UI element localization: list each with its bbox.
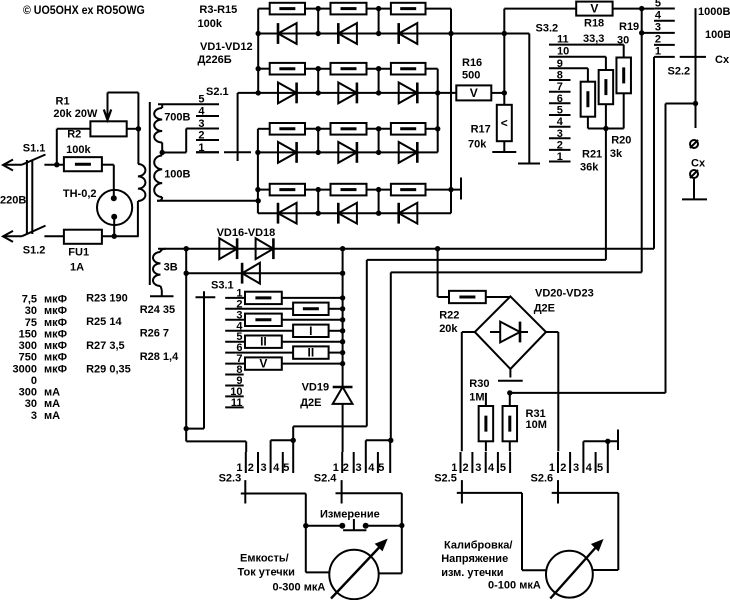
svg-text:300: 300: [19, 340, 37, 352]
transformer primary winding: [138, 129, 146, 236]
transformer secondary 700V winding: [154, 104, 190, 152]
svg-text:2: 2: [248, 462, 254, 474]
fuse FU1 1A: [44, 230, 138, 274]
svg-text:мкФ: мкФ: [44, 305, 67, 317]
switch S2.6 contacts: [531, 452, 608, 485]
svg-text:Д2Е: Д2Е: [300, 397, 321, 409]
svg-text:Д226Б: Д226Б: [198, 54, 232, 66]
svg-text:8: 8: [557, 70, 563, 82]
svg-text:10M: 10M: [526, 419, 547, 431]
svg-text:4: 4: [198, 106, 205, 118]
svg-text:VD16-VD18: VD16-VD18: [217, 227, 276, 239]
wire S2.6 contacts 3,5 join and bar: [583, 430, 618, 453]
svg-text:R26 7: R26 7: [140, 328, 169, 340]
label 1000V: [698, 6, 730, 18]
svg-text:5: 5: [557, 105, 563, 117]
svg-text:30: 30: [25, 305, 37, 317]
wire S2.4 common to meter: [336, 493, 405, 573]
resistor R2 100k: [64, 129, 114, 199]
resistor R21 36k: [580, 68, 602, 173]
svg-text:© UO5OHX ex RO5OWG: © UO5OHX ex RO5OWG: [23, 3, 145, 17]
svg-text:II: II: [308, 346, 315, 360]
wire VD19 to S2.4 contact1: [342, 404, 344, 452]
svg-text:мкФ: мкФ: [44, 294, 67, 306]
wire left riser x186: [184, 249, 189, 432]
wire S2.2 common down to R30/R31: [510, 104, 666, 393]
resistor R16 with V meter symbol: [456, 57, 504, 100]
wire S2.6 common to meter2: [552, 493, 619, 570]
svg-text:100k: 100k: [198, 18, 223, 30]
svg-text:3: 3: [356, 462, 362, 474]
svg-text:36k: 36k: [580, 161, 599, 173]
wire ladder output riser x504: [502, 9, 577, 105]
label capacitance scale values: [13, 294, 68, 422]
node 700V/100V tap: [160, 129, 197, 156]
wire S2.5 common to meter2: [457, 493, 546, 570]
label VD16-VD18: [217, 227, 276, 239]
svg-text:20k: 20k: [439, 323, 458, 335]
svg-text:мА: мА: [44, 398, 60, 410]
svg-text:V: V: [470, 86, 478, 100]
svg-text:VD20-VD23: VD20-VD23: [535, 287, 594, 299]
transformer core: [149, 102, 151, 285]
svg-text:Калибровка/: Калибровка/: [444, 540, 512, 552]
terminal Cx upper: [690, 140, 698, 148]
switch S3.2 contacts: [536, 22, 624, 163]
svg-text:R28 1,4: R28 1,4: [140, 351, 179, 363]
resistor R23 scale element: [225, 292, 345, 304]
switch S1.2: [3, 226, 46, 257]
svg-text:1A: 1A: [70, 262, 84, 274]
svg-text:750: 750: [19, 352, 37, 364]
wire stubs row R3-R5 row1: [316, 6, 382, 36]
resistor R24 scale element: [225, 303, 345, 315]
switch S1.1: [3, 143, 46, 171]
svg-text:300: 300: [19, 387, 37, 399]
resistor R31 10M: [503, 390, 547, 451]
svg-text:2: 2: [655, 34, 661, 46]
switch S1 mechanical link: [27, 160, 32, 234]
svg-text:VD1-VD12: VD1-VD12: [200, 41, 253, 53]
svg-text:75: 75: [25, 317, 37, 329]
svg-text:5: 5: [655, 0, 661, 9]
svg-text:3000: 3000: [13, 363, 37, 375]
svg-text:Измерение: Измерение: [320, 508, 380, 520]
svg-text:изм. утечки: изм. утечки: [441, 567, 503, 579]
wire bridge right to S2.6 contact1: [546, 332, 558, 451]
svg-text:мкФ: мкФ: [44, 352, 67, 364]
wire VD16 line: [158, 246, 654, 251]
wire S2.4 contacts 3,5 join: [366, 438, 394, 452]
diodes VD1-VD3 row1: [258, 23, 504, 44]
svg-text:R27 3,5: R27 3,5: [86, 340, 125, 352]
wire R21 node down-left: [367, 129, 606, 427]
label R23-R29 values: [86, 293, 179, 376]
resistor R19 30: [616, 21, 639, 93]
svg-text:2: 2: [343, 462, 349, 474]
switch S2.6 wiper: [557, 480, 559, 503]
svg-text:100В: 100В: [705, 29, 730, 41]
svg-text:7,5: 7,5: [22, 294, 37, 306]
wire VD18 line: [184, 271, 346, 276]
svg-text:0-300 мкА: 0-300 мкА: [273, 582, 326, 594]
svg-text:2: 2: [560, 462, 566, 474]
meter PA1 0-300uA: [329, 540, 387, 600]
svg-text:30: 30: [617, 35, 629, 47]
svg-text:Ток утечки: Ток утечки: [238, 567, 295, 579]
resistor R18 33,3 with V meter symbol: [576, 2, 655, 45]
svg-text:R21: R21: [582, 149, 602, 161]
switch S2.3 wiper: [244, 480, 246, 503]
title copyright label: [23, 3, 145, 17]
switch S2.4 contacts: [314, 452, 390, 485]
svg-text:R23 190: R23 190: [86, 293, 128, 305]
svg-text:7: 7: [557, 81, 563, 93]
svg-text:R22: R22: [439, 309, 459, 321]
svg-text:S3.2: S3.2: [536, 22, 559, 34]
switch S3.1 contacts: [225, 287, 244, 409]
svg-text:1: 1: [557, 151, 563, 163]
wire stubs row R12-R15 row4: [316, 187, 382, 216]
svg-text:R25 14: R25 14: [86, 316, 122, 328]
terminal bar bridge bottom: [498, 369, 523, 381]
switch S2.5 contacts: [434, 452, 510, 485]
svg-text:S1.2: S1.2: [23, 244, 46, 256]
terminal bar row4 right: [460, 178, 462, 200]
switch S2.2 contacts: [642, 0, 690, 77]
svg-text:S3.1: S3.1: [211, 280, 234, 292]
label meter2: [441, 540, 541, 592]
svg-text:3: 3: [573, 462, 579, 474]
diodes VD4-VD6 row2: [258, 83, 456, 104]
svg-text:1000В: 1000В: [698, 6, 730, 18]
switch S2.1 wiper: [224, 93, 258, 161]
svg-text:<: <: [501, 116, 508, 130]
svg-text:ТН-0,2: ТН-0,2: [63, 188, 97, 200]
diodes VD7-VD9 row3: [258, 142, 438, 163]
svg-text:1M: 1M: [469, 392, 484, 404]
svg-text:R19: R19: [619, 21, 639, 33]
wire R18 output to S2.2 contact3 and down: [639, 6, 644, 273]
svg-text:5: 5: [378, 462, 384, 474]
svg-text:2: 2: [557, 139, 563, 151]
label Cx range: [715, 54, 730, 66]
svg-text:мкФ: мкФ: [44, 363, 67, 375]
svg-text:2: 2: [463, 462, 469, 474]
svg-text:100В: 100В: [164, 169, 190, 181]
svg-text:V: V: [590, 2, 598, 16]
label Cx terminal: [691, 158, 706, 170]
diode VD18: [242, 263, 260, 284]
svg-text:6: 6: [557, 93, 563, 105]
terminal bar R17 bottom: [492, 151, 516, 153]
wire R18 node left branch: [391, 272, 642, 440]
svg-text:S2.5: S2.5: [434, 473, 457, 485]
svg-text:2: 2: [198, 130, 204, 142]
svg-text:R3-R15: R3-R15: [199, 4, 237, 16]
svg-text:0: 0: [31, 375, 37, 387]
svg-text:3: 3: [475, 462, 481, 474]
svg-text:150: 150: [19, 328, 37, 340]
svg-text:5: 5: [500, 462, 506, 474]
svg-text:R17: R17: [471, 124, 491, 136]
svg-text:3: 3: [261, 462, 267, 474]
switch S2.3 contacts: [219, 452, 294, 485]
svg-text:100k: 100k: [66, 144, 91, 156]
resistor R22 20k: [439, 291, 486, 335]
resistor R26 scale element: [225, 324, 345, 338]
svg-text:R30: R30: [469, 378, 489, 390]
svg-text:R18: R18: [584, 18, 604, 30]
wire VD16 line to R22: [438, 249, 449, 297]
terminal bar Cx bottom: [682, 198, 707, 200]
svg-text:Емкость/: Емкость/: [240, 553, 289, 565]
terminal Cx lower: [690, 170, 698, 199]
svg-text:S2.3: S2.3: [219, 473, 242, 485]
switch S2.1 contacts: [158, 86, 229, 154]
wire 100V winding to ladder bus: [157, 198, 261, 203]
switch S2.5 wiper: [461, 480, 463, 503]
bridge rectifier VD20-VD23: [475, 287, 594, 369]
wire bridge left to S2.5 contact1: [462, 332, 475, 451]
resistors R9-R11 row3: [258, 123, 438, 135]
svg-text:20k 20W: 20k 20W: [53, 108, 98, 120]
wire ladder left bus upper: [256, 9, 261, 96]
svg-text:0-100 мкА: 0-100 мкА: [488, 580, 541, 592]
svg-text:Сх: Сх: [691, 158, 706, 170]
svg-text:Сх: Сх: [715, 54, 730, 66]
diode VD17: [256, 238, 274, 259]
svg-text:4: 4: [655, 10, 662, 22]
svg-text:мкФ: мкФ: [44, 317, 67, 329]
wire S2.2 contact1 down to VD16 line: [653, 57, 655, 249]
svg-text:4: 4: [557, 116, 564, 128]
svg-text:R24 35: R24 35: [140, 304, 175, 316]
svg-text:5: 5: [283, 462, 289, 474]
switch S2.4 wiper: [341, 480, 343, 503]
svg-text:мА: мА: [44, 410, 60, 422]
svg-text:мкФ: мкФ: [44, 340, 67, 352]
svg-text:мкФ: мкФ: [44, 328, 67, 340]
resistors R6-R8 row2: [258, 63, 438, 75]
resistors R3-R5 row1: [258, 3, 451, 15]
wire stubs row R9-R11 row3: [316, 126, 382, 155]
wire stubs row R6-R8 row2: [316, 66, 382, 96]
svg-text:S2.4: S2.4: [314, 473, 338, 485]
wire riser x186 to S2.3 contact1: [186, 429, 246, 452]
label R3-R15 100k: [198, 4, 238, 30]
transformer secondary 100V winding: [154, 156, 190, 201]
switch S3.2 wiper: [504, 34, 540, 164]
svg-text:700В: 700В: [164, 112, 190, 124]
wire S2.3 contacts 3,5 join: [271, 426, 367, 452]
button Izmerenie: [306, 508, 402, 530]
resistor R30 1M: [469, 378, 493, 451]
label 220V mains: [0, 195, 26, 207]
resistor R17 70k with arrow symbol: [468, 105, 512, 152]
wire R19-R21 bottom node: [588, 93, 624, 131]
wire S2.3 common to meter: [241, 494, 330, 573]
diodes VD10-VD12 row4: [258, 203, 451, 224]
svg-text:R1: R1: [56, 96, 70, 108]
switch S2.2 common bar: [666, 8, 707, 128]
svg-text:V: V: [259, 357, 267, 371]
svg-text:220В: 220В: [0, 195, 26, 207]
resistors R12-R15 row4: [258, 184, 461, 196]
svg-text:S2.6: S2.6: [531, 473, 554, 485]
label meter1: [238, 553, 326, 594]
svg-text:VD19: VD19: [302, 381, 330, 393]
svg-text:мА: мА: [44, 387, 60, 399]
label VD1-VD12 D226B: [198, 41, 253, 66]
svg-text:1: 1: [655, 46, 661, 58]
wire row2-row3 right link: [435, 69, 440, 153]
svg-text:Д2Е: Д2Е: [534, 303, 555, 315]
svg-text:3k: 3k: [610, 148, 623, 160]
diode VD19: [300, 381, 352, 409]
resistor R1 potentiometer: [53, 93, 141, 137]
wire ladder right bus: [448, 9, 453, 214]
svg-text:I: I: [309, 324, 312, 338]
svg-text:R2: R2: [67, 129, 81, 141]
svg-text:4: 4: [273, 462, 280, 474]
resistor R29 scale element: [225, 357, 345, 371]
svg-text:S2.1: S2.1: [206, 86, 229, 98]
resistor R27 scale element: [225, 335, 345, 349]
resistor R25 scale element: [225, 314, 345, 326]
wire ladder left bus lower: [255, 129, 260, 213]
svg-text:3: 3: [557, 128, 563, 140]
svg-text:4: 4: [488, 462, 495, 474]
svg-text:3В: 3В: [164, 261, 178, 273]
diode VD16: [219, 238, 237, 259]
svg-text:4: 4: [368, 462, 375, 474]
svg-text:R16: R16: [462, 57, 482, 69]
svg-text:500: 500: [462, 70, 480, 82]
svg-text:S2.2: S2.2: [668, 66, 691, 78]
svg-text:3: 3: [655, 22, 661, 34]
svg-text:4: 4: [586, 462, 593, 474]
svg-text:3: 3: [31, 410, 37, 422]
transformer secondary 3V winding: [153, 249, 178, 297]
switch S3.1 wiper: [186, 280, 234, 429]
svg-text:II: II: [260, 335, 267, 349]
label 100V: [705, 29, 730, 41]
svg-text:70k: 70k: [468, 139, 487, 151]
svg-text:Напряжение: Напряжение: [441, 553, 508, 565]
resistor R20 3k: [599, 57, 632, 160]
svg-text:S1.1: S1.1: [23, 143, 46, 155]
terminal bar 3V winding bottom: [150, 295, 174, 297]
svg-text:R20: R20: [611, 134, 631, 146]
meter PA2 0-100uA: [546, 540, 603, 599]
svg-text:5: 5: [597, 462, 603, 474]
transformer lamp TN-0,2: [63, 188, 132, 236]
svg-text:30: 30: [25, 398, 37, 410]
svg-text:R29 0,35: R29 0,35: [86, 363, 131, 375]
svg-text:FU1: FU1: [68, 247, 89, 259]
wire S1.1 to R2 and node: [44, 129, 90, 168]
svg-text:33,3: 33,3: [583, 33, 604, 45]
resistor R28 scale element: [225, 346, 345, 360]
wire middle riser x342 (S3.1 common rail): [342, 249, 344, 387]
